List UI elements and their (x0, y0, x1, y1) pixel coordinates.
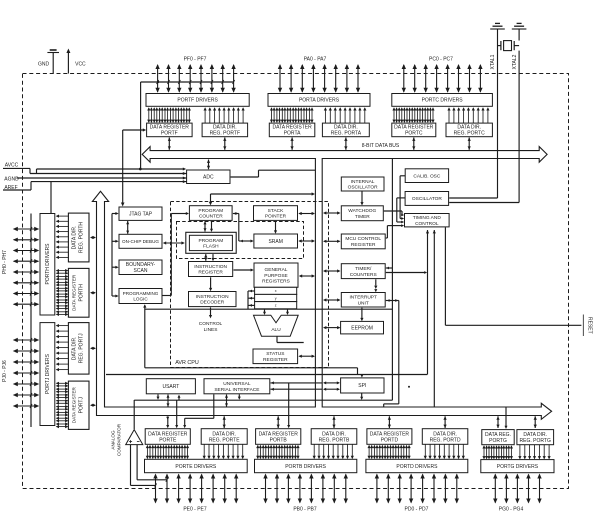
timer bus arrows (324, 270, 340, 272)
decoder to control lines arrow (210, 307, 212, 315)
svg-text:VCC: VCC (75, 62, 86, 68)
svg-text:PD0 - PD7: PD0 - PD7 (405, 507, 429, 513)
timing control riser 2 (433, 230, 436, 233)
wire PORTF programming lines (141, 81, 234, 83)
svg-text:PORTH DRIVERS: PORTH DRIVERS (45, 243, 51, 285)
WATCHDOG TIMER box (341, 206, 383, 221)
PROGRAMMING LOGIC box (119, 289, 162, 304)
PROGRAM FLASH box (186, 232, 236, 253)
svg-text:STATUS: STATUS (266, 351, 284, 357)
svg-text:ALU: ALU (271, 327, 281, 333)
INTERRUPT UNIT box (341, 293, 385, 308)
instruction register to gpr arrow (234, 269, 251, 271)
svg-text:PORTD DRIVERS: PORTD DRIVERS (396, 464, 438, 470)
svg-text:PORTE DRIVERS: PORTE DRIVERS (175, 464, 216, 470)
JTAG column feed line (111, 214, 113, 297)
INSTRUCTION DECODER box (189, 292, 237, 307)
ADC bus arrow (208, 160, 210, 170)
pins PA0 - PA7 (279, 65, 281, 92)
svg-text:SCAN: SCAN (134, 268, 148, 274)
svg-text:POINTER: POINTER (265, 214, 287, 220)
STATUS REGISTER box (253, 349, 298, 364)
bus link arrows PORTD (388, 416, 390, 428)
svg-text:PORTA: PORTA (284, 131, 301, 137)
UNIVERSAL SERIAL INTERFACE box (204, 379, 270, 394)
comb arrows data register PORTC (393, 108, 395, 122)
svg-text:REGISTER: REGISTER (351, 242, 376, 248)
svg-text:REG. PORTA: REG. PORTA (331, 131, 362, 137)
svg-text:SERIAL INTERFACE: SERIAL INTERFACE (214, 387, 259, 393)
USART box (146, 379, 195, 394)
svg-text:PG0 - PG4: PG0 - PG4 (499, 507, 524, 513)
left register bus arrows (91, 237, 95, 239)
TIMER/ COUNTERS box (341, 264, 385, 279)
comb arrows data register PORTA (271, 108, 273, 122)
DATA DIR REG PORTG box (517, 430, 554, 445)
ADC input arrowheads (183, 168, 186, 171)
crossover slashes PORTF (157, 80, 159, 84)
svg-text:PORTB DRIVERS: PORTB DRIVERS (285, 464, 326, 470)
svg-text:UNIT: UNIT (358, 300, 369, 306)
svg-text:XTAL1: XTAL1 (490, 54, 496, 69)
PORTJ DRIVERS box (40, 323, 55, 426)
wire vertical to bundle (140, 82, 142, 169)
wire AGND (17, 177, 187, 179)
extra feed portG register (505, 407, 507, 426)
instruction register to decoder arrow (210, 277, 212, 288)
PORTC DRIVERS box (392, 94, 493, 107)
bus link arrows PORTE (167, 416, 169, 427)
svg-text:LINES: LINES (204, 327, 218, 333)
stack pointer to sram arrow (275, 221, 277, 231)
DATA REGISTER PORTF box (147, 123, 193, 137)
DATA REGISTER PORTD box (367, 429, 412, 445)
svg-text:REG. PORTJ: REG. PORTJ (79, 333, 85, 363)
mcu control bus arrows (324, 240, 340, 242)
extra feed portB register (288, 383, 290, 426)
OSCILLATOR box (405, 192, 449, 206)
internal osc to watchdog arrow (361, 192, 363, 203)
svg-text:PF0 - PF7: PF0 - PF7 (184, 57, 207, 63)
MCU CONTROL REGISTER box (341, 234, 385, 249)
comb arrows data dir PORTA (324, 108, 326, 123)
wire XTAL1 (497, 41, 499, 199)
wire into JTAG TAP from top (122, 130, 124, 203)
comb arrows data register PORTD (368, 446, 370, 459)
svg-text:PORTJ DRIVERS: PORTJ DRIVERS (45, 353, 51, 394)
svg-text:CONTROL: CONTROL (415, 221, 439, 227)
pins PE0 - PE7 (155, 475, 157, 503)
svg-text:USART: USART (162, 384, 179, 390)
flash to instruction register arrows (205, 254, 207, 261)
timing control riser 3 (444, 227, 446, 325)
svg-text:COMPARATOR: COMPARATOR (117, 423, 122, 456)
svg-text:PC0 - PC7: PC0 - PC7 (429, 57, 453, 63)
sram left feed (239, 240, 251, 242)
svg-text:INTERRUPT: INTERRUPT (349, 295, 377, 301)
svg-text:PORTD: PORTD (381, 437, 399, 443)
watchdog bus arrows (324, 212, 340, 214)
svg-text:REGISTER: REGISTER (263, 357, 288, 363)
svg-text:REG. PORTG: REG. PORTG (520, 438, 551, 444)
svg-text:ANALOG: ANALOG (111, 430, 116, 450)
SRAM box (254, 234, 298, 248)
comb arrows data dir PORTE (203, 444, 205, 458)
wire AVCC (3, 167, 30, 169)
pins PG0 - PG4 (494, 475, 496, 503)
comb arrows data register PORTJ (57, 382, 68, 384)
svg-text:TIMING AND: TIMING AND (413, 215, 442, 221)
svg-text:INTERNAL: INTERNAL (351, 179, 375, 185)
ON-CHIP DEBUG box (119, 234, 162, 248)
svg-text:PORTB: PORTB (270, 437, 288, 443)
svg-text:PORTE: PORTE (159, 437, 177, 443)
ADC to data bus wire (231, 176, 259, 178)
bus link arrows PORTB (277, 416, 279, 428)
svg-text:PROGRAMMING: PROGRAMMING (123, 291, 159, 296)
BOUNDARY-SCAN box (119, 260, 162, 275)
status register bus arrows (299, 355, 314, 357)
programming column vertical (170, 214, 172, 296)
ground symbol XTAL1 (497, 29, 499, 41)
svg-text:PORTJ: PORTJ (79, 397, 85, 414)
left port routing line (30, 214, 32, 428)
interrupt bus arrows (324, 299, 340, 301)
junction dot (139, 168, 142, 171)
svg-text:AVCC: AVCC (5, 163, 19, 169)
INTERNAL OSCILLATOR box (341, 177, 384, 191)
DATA REGISTER PORTC box (392, 123, 436, 137)
svg-text:PB0 - PB7: PB0 - PB7 (293, 507, 317, 513)
svg-text:PE0 - PE7: PE0 - PE7 (183, 507, 207, 513)
calib osc to timing wire (400, 175, 405, 177)
ground symbol XTAL2 (518, 29, 520, 41)
wire to DATA REGISTER PORTF (123, 129, 143, 131)
DATA REGISTER PORTH box (68, 268, 89, 317)
bus link arrows PORTF (168, 138, 170, 150)
bus link arrows PORTG (497, 416, 499, 428)
interrupt to eeprom arrow (361, 308, 363, 319)
svg-text:REG. PORTC: REG. PORTC (454, 131, 485, 137)
gpr bus arrows (300, 275, 314, 277)
program counter right feed (238, 214, 240, 242)
GENERAL PURPOSE REGISTERS box (254, 263, 298, 287)
spi to wire arrow (361, 394, 363, 398)
ALU (254, 315, 299, 336)
Z register (255, 302, 297, 309)
mcu control to timing wire (386, 237, 388, 239)
comb arrows data register PORTB (257, 446, 259, 459)
8-bit data bus (top hollow arrow) (92, 147, 551, 420)
svg-text:PORTF: PORTF (161, 131, 178, 137)
svg-text:y: y (275, 296, 277, 300)
usi to spi wires (271, 382, 323, 384)
PORTD DRIVERS box (366, 459, 468, 472)
RESET label (582, 315, 584, 337)
svg-text:GENERAL: GENERAL (265, 267, 288, 273)
svg-text:ADC: ADC (203, 175, 214, 181)
comb arrows data dir PORTG (519, 445, 521, 459)
svg-text:REG. PORTD: REG. PORTD (430, 437, 461, 443)
analog comparator (126, 430, 143, 445)
svg-text:PJ0 - PJ6: PJ0 - PJ6 (2, 360, 8, 382)
AVR CPU dashed box (171, 202, 329, 368)
CALIB OSC box (405, 169, 448, 183)
DATA DIR REG PORTB box (311, 429, 357, 445)
usart down arrows (157, 394, 159, 397)
usi to porte sub-bus wire (185, 417, 214, 419)
wire AVCC to port drivers (50, 182, 52, 214)
comb arrows data dir PORTB (313, 444, 315, 458)
comb arrows data register PORTE (146, 446, 148, 459)
programming logic feed from below (143, 304, 146, 307)
PORTF DRIVERS box (146, 94, 249, 107)
svg-text:REG. PORTF: REG. PORTF (210, 131, 240, 137)
comb arrows data register PORTH (57, 270, 68, 272)
comparator output wire (133, 400, 135, 429)
DATA DIR REG PORTA box (322, 123, 369, 137)
PORTB DRIVERS box (255, 459, 357, 472)
DATA DIR REG PORTD box (422, 429, 468, 445)
watchdog to timing wire (384, 210, 402, 212)
svg-text:REG. PORTE: REG. PORTE (209, 437, 240, 443)
svg-text:PORTF DRIVERS: PORTF DRIVERS (177, 98, 218, 104)
comb arrows data dir PORTJ (57, 325, 69, 327)
svg-text:AVR CPU: AVR CPU (175, 360, 199, 366)
svg-text:CALIB. OSC: CALIB. OSC (413, 173, 440, 179)
svg-text:x: x (275, 289, 277, 293)
svg-text:PROGRAM: PROGRAM (199, 238, 224, 244)
svg-text:PORTC: PORTC (405, 131, 423, 137)
svg-text:PROGRAM: PROGRAM (198, 208, 223, 214)
TIMING AND CONTROL box (405, 214, 450, 227)
junction dot PF0 (157, 81, 159, 83)
stray dot (408, 386, 410, 388)
svg-text:XTAL2: XTAL2 (512, 54, 518, 69)
DATA DIR REG PORTJ box (68, 323, 89, 375)
svg-text:REGISTER: REGISTER (198, 270, 223, 276)
svg-text:DATA DIR.: DATA DIR. (72, 226, 78, 250)
PORTH DRIVERS box (40, 214, 55, 316)
svg-text:SPI: SPI (358, 383, 366, 389)
svg-text:INSTRUCTION: INSTRUCTION (196, 294, 229, 300)
comb arrows data dir PORTH (57, 215, 69, 217)
svg-text:JTAG TAP: JTAG TAP (129, 212, 153, 218)
alu to status register wire (276, 337, 278, 343)
svg-text:OSCILLATOR: OSCILLATOR (412, 196, 442, 202)
DATA REGISTER PORTA box (269, 123, 315, 137)
DATA DIR REG PORTE box (201, 429, 247, 445)
svg-text:STACK: STACK (268, 208, 284, 214)
svg-text:ON-CHIP DEBUG: ON-CHIP DEBUG (122, 239, 159, 244)
DATA REGISTER PORTB box (256, 429, 301, 445)
xyz register feed lines (247, 291, 249, 309)
svg-text:REG. PORTH: REG. PORTH (79, 222, 85, 253)
svg-text:TIMER/: TIMER/ (355, 266, 372, 272)
timer right feeds (386, 267, 393, 269)
pins PH0 - PH7 (14, 228, 38, 230)
GND pin (52, 53, 54, 74)
DATA DIR REG PORTF box (202, 123, 248, 137)
svg-text:INSTRUCTION: INSTRUCTION (194, 264, 227, 270)
timer to interrupt arrow (375, 279, 377, 285)
chip boundary (dashed) (23, 74, 569, 489)
svg-text:PORTG: PORTG (489, 438, 507, 444)
DATA DIR REG PORTH box (68, 213, 89, 262)
program counter to flash arrow (204, 221, 206, 231)
svg-text:GND: GND (38, 62, 50, 68)
wire AVCC branch (36, 169, 38, 174)
svg-text:PORTH: PORTH (79, 284, 85, 302)
interrupt to bus stepped wire (398, 301, 400, 404)
PROGRAM COUNTER box (189, 206, 232, 221)
SPI box (341, 378, 384, 393)
PORTA DRIVERS box (268, 94, 370, 107)
PORTE DRIVERS box (145, 459, 248, 472)
oscillator to program counter wire (211, 193, 313, 195)
wire programming logic to interrupt (145, 308, 393, 310)
pins PJ0 - PJ6 (14, 339, 38, 341)
crystal (504, 41, 512, 51)
pins PB0 - PB7 (265, 475, 267, 503)
svg-text:OSCILLATOR: OSCILLATOR (348, 185, 378, 191)
VCC pin (67, 53, 69, 74)
svg-text:DATA REGISTER: DATA REGISTER (72, 386, 77, 423)
DATA REGISTER PORTE box (145, 429, 190, 445)
stack pointer bus arrows (299, 213, 314, 215)
svg-text:FLASH: FLASH (203, 244, 219, 250)
gpr to alu arrows (264, 310, 266, 313)
svg-text:EEPROM: EEPROM (351, 325, 373, 331)
svg-text:PA0 - PA7: PA0 - PA7 (304, 57, 327, 63)
svg-text:PORTC DRIVERS: PORTC DRIVERS (422, 98, 464, 104)
svg-text:8-BIT DATA BUS: 8-BIT DATA BUS (362, 143, 400, 149)
sram bus arrows (299, 240, 314, 242)
svg-text:MCU CONTROL: MCU CONTROL (345, 236, 381, 242)
svg-text:WATCHDOG: WATCHDOG (348, 208, 376, 214)
pins PF0 - PF7 (157, 65, 159, 92)
ADC box (187, 170, 230, 184)
svg-text:z: z (275, 304, 277, 308)
on-chip debug to flash arrow (164, 242, 184, 244)
comparator input wires (130, 445, 132, 485)
RESET wire (445, 324, 581, 326)
comb arrows data dir PORTD (424, 444, 426, 458)
svg-text:DATA DIR.: DATA DIR. (72, 336, 78, 360)
DATA REGISTER PORTJ box (68, 381, 89, 429)
comb arrows data dir PORTF (204, 108, 206, 123)
svg-text:UNIVERSAL: UNIVERSAL (223, 381, 251, 387)
svg-text:COUNTERS: COUNTERS (350, 272, 377, 278)
X register (255, 287, 297, 294)
STACK POINTER box (254, 206, 298, 221)
vertical wire A (391, 159, 393, 400)
oscillator to timing wire (397, 197, 405, 199)
wire AREF (3, 189, 31, 191)
PORTG DRIVERS box (481, 460, 554, 473)
svg-text:REG. PORTB: REG. PORTB (319, 437, 350, 443)
bus link arrows PORTC (413, 138, 415, 150)
pins PD0 - PD7 (376, 475, 378, 503)
spi bus arrows (324, 382, 339, 384)
svg-text:CONTROL: CONTROL (199, 321, 223, 327)
JTAG to on-chip debug arrow (127, 221, 129, 234)
svg-text:LOGIC: LOGIC (133, 297, 148, 302)
wire mid horizontal lower (106, 374, 427, 376)
DATA DIR REG PORTC box (446, 123, 492, 137)
bus link arrows PORTA (291, 138, 293, 150)
comb arrows data register PORTF (148, 108, 150, 122)
timing control riser 1 (426, 230, 429, 233)
JTAG TAP box (119, 207, 162, 220)
usi down arrows (213, 394, 215, 418)
comb arrows data dir PORTC (448, 108, 450, 123)
svg-text:PORTG DRIVERS: PORTG DRIVERS (497, 464, 539, 470)
INSTRUCTION REGISTER box (189, 262, 233, 277)
wire XTAL2 (518, 51, 520, 203)
oscillator to xtal wires (449, 197, 497, 199)
svg-text:DECODER: DECODER (200, 300, 225, 306)
Y register (255, 294, 297, 301)
comb arrows data register PORTG (483, 446, 485, 459)
svg-text:DATA REGISTER: DATA REGISTER (72, 274, 77, 311)
eeprom bus arrows (324, 327, 340, 329)
inner dashed box flash/sram (177, 222, 304, 259)
svg-text:PORTA DRIVERS: PORTA DRIVERS (299, 98, 340, 104)
svg-text:AGND: AGND (4, 176, 19, 182)
spi top feed arrow (361, 375, 363, 376)
svg-text:PURPOSE: PURPOSE (264, 273, 287, 279)
extra feed portE register (176, 400, 178, 425)
svg-text:TIMER: TIMER (355, 214, 370, 220)
svg-text:RESET: RESET (587, 317, 593, 334)
svg-text:SRAM: SRAM (268, 239, 282, 245)
DATA REGISTER PORTG box (482, 430, 514, 445)
interrupt right feeds (386, 300, 399, 302)
svg-text:REGISTERS: REGISTERS (262, 279, 290, 285)
svg-text:COUNTER: COUNTER (199, 214, 223, 220)
wire usart/usi data (134, 399, 392, 401)
pins PC0 - PC7 (403, 65, 405, 92)
EEPROM box (341, 321, 384, 334)
svg-text:PH0 - PH7: PH0 - PH7 (2, 250, 8, 274)
